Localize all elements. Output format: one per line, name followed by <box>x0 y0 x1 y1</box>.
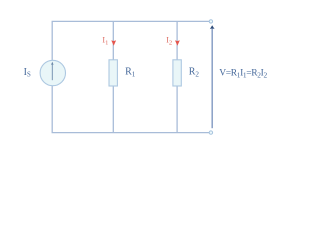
wire branch R2 <box>176 21 178 132</box>
terminal bottom right <box>209 131 212 134</box>
resistor R1 body <box>109 60 117 86</box>
wire outer loop (left, top, bottom rails) <box>52 21 211 132</box>
resistor R2 body <box>173 60 181 86</box>
terminal top right <box>209 20 212 23</box>
current source IS arrow <box>51 62 54 81</box>
svg-text:I1: I1 <box>102 36 108 47</box>
svg-text:IS: IS <box>24 67 31 79</box>
voltage arrow V <box>210 25 215 128</box>
svg-text:I2: I2 <box>166 36 172 47</box>
wire branch R1 <box>112 21 114 132</box>
svg-text:V=R1I1=R2I2: V=R1I1=R2I2 <box>219 69 267 80</box>
current source IS circle <box>40 60 65 85</box>
current arrow I2 <box>175 40 180 45</box>
current arrow I1 <box>111 40 116 45</box>
svg-text:R1: R1 <box>125 67 136 79</box>
svg-text:R2: R2 <box>189 67 200 79</box>
